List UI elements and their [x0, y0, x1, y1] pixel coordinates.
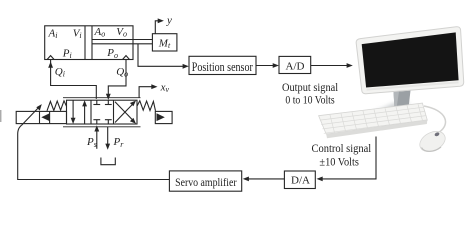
left square up arrow	[84, 102, 86, 124]
edge artifact mark	[0, 110, 2, 122]
wire rod tap to position sensor	[138, 44, 186, 67]
return line Pr	[107, 127, 109, 147]
block A/D	[279, 56, 311, 73]
block D/A	[284, 171, 315, 189]
wire D/A to servo amplifier	[246, 178, 285, 180]
right spring	[137, 101, 155, 111]
valve body	[67, 100, 138, 124]
piston	[84, 26, 86, 60]
wire servo amplifier to valve solenoid	[18, 134, 170, 180]
svg-text:y: y	[166, 15, 172, 27]
left actuator: proportional solenoid box	[16, 111, 66, 123]
svg-text:0 to 10 Volts: 0 to 10 Volts	[285, 93, 335, 107]
mouse	[416, 127, 448, 155]
svg-text:Control signal: Control signal	[312, 141, 372, 155]
monitor stand neck	[394, 91, 411, 109]
valve divider left	[90, 100, 92, 124]
right actuator box	[155, 111, 172, 123]
valve divider right	[113, 100, 115, 124]
svg-text:Servo amplifier: Servo amplifier	[175, 175, 237, 189]
svg-text:±10 Volts: ±10 Volts	[319, 156, 359, 168]
cylinder body	[45, 26, 133, 60]
left spring	[47, 101, 67, 111]
block Servo amplifier	[169, 171, 241, 191]
svg-text:A/D: A/D	[286, 61, 305, 73]
wire A/D to computer	[311, 65, 350, 67]
svg-text:Mt: Mt	[158, 37, 171, 50]
svg-text:Ps: Ps	[86, 136, 97, 149]
left solenoid triangle	[41, 113, 49, 121]
block Position sensor	[189, 56, 256, 74]
svg-text:Position sensor: Position sensor	[192, 59, 254, 74]
svg-text:Pi: Pi	[62, 47, 72, 60]
svg-text:Ai: Ai	[48, 27, 58, 40]
supply line Ps	[96, 127, 98, 149]
wire Qo: cylinder port to valve	[108, 60, 126, 97]
piston rod	[92, 39, 152, 41]
Qi up arrowhead	[48, 62, 53, 68]
wire Qi: cylinder port to valve	[51, 60, 97, 99]
computer monitor bezel	[356, 27, 464, 94]
tank symbol	[101, 158, 115, 165]
svg-text:Ao: Ao	[94, 26, 106, 39]
svg-text:Vi: Vi	[73, 27, 82, 40]
mouse cable	[424, 106, 446, 133]
center square blocked port stubs bottom	[96, 120, 98, 124]
svg-text:Po: Po	[106, 47, 118, 60]
svg-text:Vo: Vo	[116, 26, 127, 39]
wire PS to A/D	[256, 65, 276, 67]
y arrow	[155, 21, 160, 34]
svg-text:xv: xv	[160, 81, 170, 94]
left square down arrow	[72, 100, 74, 122]
Qo down arrowhead	[106, 94, 111, 100]
port Po notch	[123, 56, 130, 60]
center square blocked port stubs top	[96, 100, 98, 104]
mass Mt box	[152, 34, 177, 51]
monitor screen	[362, 32, 459, 87]
wire xv	[139, 87, 154, 98]
wire computer to D/A	[320, 137, 376, 179]
port Pi notch	[47, 56, 54, 60]
svg-text:Qi: Qi	[55, 66, 65, 79]
svg-text:Pr: Pr	[113, 136, 125, 149]
monitor stand shadow	[370, 103, 410, 116]
valve lower rail	[63, 126, 141, 128]
proportional arrow diagonal	[22, 106, 40, 125]
svg-text:D/A: D/A	[291, 175, 310, 187]
keyboard	[319, 103, 428, 138]
right solenoid triangle	[157, 113, 165, 121]
right square crossed arrows	[115, 102, 135, 122]
monitor chin highlight	[367, 81, 459, 90]
valve upper rail	[63, 97, 141, 99]
